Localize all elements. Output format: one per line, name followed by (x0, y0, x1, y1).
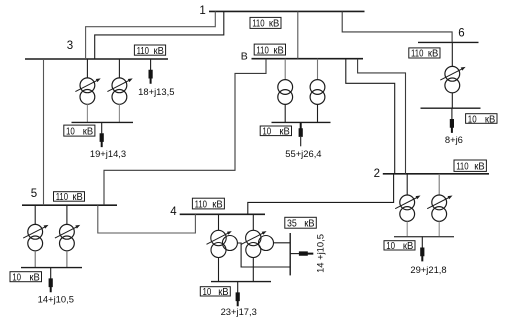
svg-text:4: 4 (170, 206, 177, 218)
svg-text:кВ: кВ (29, 273, 40, 284)
transformer T5a (23, 205, 48, 267)
transformer T4a (three-winding) (207, 214, 290, 281)
bus 5 (22, 204, 117, 206)
load 8+j6 (445, 108, 463, 145)
10kV bus of substation 5 (21, 267, 82, 269)
bus 2 (383, 173, 489, 175)
svg-text:110: 110 (256, 45, 269, 56)
transformer T3a (75, 59, 100, 122)
bus 3 (25, 58, 168, 60)
bus B (252, 58, 364, 60)
voltage box 10kV sub6 (466, 114, 497, 126)
svg-text:23+j17,3: 23+j17,3 (221, 306, 257, 317)
svg-text:кВ: кВ (403, 241, 414, 252)
voltage box 10kV subB (260, 126, 291, 138)
wire bus3 to bus5 (43, 59, 45, 205)
bus 6 (418, 41, 479, 43)
10kV bus of substation 6 (421, 107, 481, 109)
node 5 label (31, 188, 37, 200)
wire bus4 to bus2 (248, 174, 394, 215)
node 6 label (458, 28, 464, 40)
wire bus5 to bus4 (98, 205, 196, 233)
svg-text:кВ: кВ (83, 126, 94, 137)
svg-text:2: 2 (374, 168, 380, 180)
node 1 label (199, 5, 205, 17)
voltage box 35kV sub4 (285, 217, 317, 229)
svg-text:10: 10 (262, 127, 271, 138)
svg-text:10: 10 (386, 241, 395, 252)
svg-text:кВ: кВ (474, 162, 485, 173)
transformer T5b (55, 205, 80, 267)
10kV bus of substation 3 (72, 121, 134, 123)
load 18+j13,5 (138, 59, 174, 97)
wire bus1 to bus3 circuit 1 (86, 11, 216, 59)
svg-text:110: 110 (411, 49, 424, 60)
bus 1 (209, 10, 365, 12)
svg-text:10: 10 (66, 126, 75, 137)
svg-text:3: 3 (67, 40, 73, 52)
svg-text:кВ: кВ (154, 46, 165, 57)
svg-text:19+j14,3: 19+j14,3 (90, 148, 126, 159)
svg-text:кВ: кВ (273, 45, 284, 56)
svg-text:кВ: кВ (428, 49, 439, 60)
svg-text:29+j21,8: 29+j21,8 (410, 264, 446, 275)
svg-text:кВ: кВ (485, 114, 496, 125)
svg-text:кВ: кВ (279, 127, 290, 138)
10kV bus of substation B (272, 121, 331, 123)
svg-text:14+j10,5: 14+j10,5 (38, 293, 74, 304)
transformer TBa (278, 59, 293, 123)
load 14+j10,5 sub4 35kV side (290, 234, 325, 273)
transformer T2b (427, 174, 452, 237)
wire bus1 to bus6 (342, 11, 452, 42)
svg-text:110: 110 (137, 46, 150, 57)
svg-text:5: 5 (31, 188, 37, 200)
svg-text:кВ: кВ (218, 287, 229, 298)
svg-text:В: В (241, 51, 248, 63)
35kV bus of substation 4 (289, 233, 291, 275)
svg-text:110: 110 (56, 192, 69, 203)
load 19+j14,3 (90, 122, 126, 159)
svg-text:кВ: кВ (72, 192, 83, 203)
wire busB to bus5 (104, 59, 266, 206)
10kV bus of substation 4 (211, 281, 271, 283)
voltage box 110kV busB (254, 44, 285, 56)
svg-text:14 +j10,5: 14 +j10,5 (314, 234, 325, 273)
voltage box 10kV sub3 (64, 125, 95, 137)
transformer T2a (395, 174, 420, 237)
transformer T3b (107, 59, 132, 122)
node 4 label (170, 206, 177, 218)
svg-text:110: 110 (252, 19, 265, 30)
voltage box 110kV bus5 (54, 192, 85, 204)
svg-text:110: 110 (195, 199, 208, 210)
svg-text:кВ: кВ (212, 199, 223, 210)
svg-text:18+j13,5: 18+j13,5 (138, 86, 174, 97)
transformer T6 (440, 42, 465, 108)
load 23+j17,3 (221, 282, 257, 317)
transformer T4b (three-winding) (241, 214, 289, 281)
load 55+j26,4 (285, 123, 321, 159)
svg-text:110: 110 (456, 162, 469, 173)
node B label (241, 51, 248, 63)
svg-text:10: 10 (468, 114, 477, 125)
svg-text:6: 6 (458, 28, 464, 40)
transformer TBb (310, 59, 325, 123)
node 2 label (374, 168, 380, 180)
bus 4 (180, 213, 265, 215)
voltage box 10kV sub5 (10, 272, 42, 284)
svg-text:10: 10 (203, 287, 212, 298)
voltage box 110kV bus6 (409, 48, 440, 60)
voltage box 110kV bus2 (454, 160, 486, 173)
svg-text:кВ: кВ (269, 19, 280, 30)
voltage box 110kV bus4 (192, 198, 224, 210)
voltage box 110kV bus1 (250, 17, 281, 29)
svg-text:10: 10 (12, 273, 21, 284)
svg-text:кВ: кВ (304, 219, 315, 230)
svg-text:35: 35 (287, 219, 297, 230)
10kV bus of substation 2 (394, 236, 454, 238)
node 3 label (67, 40, 73, 52)
load 14+j10,5 sub5 (38, 268, 74, 305)
voltage box 10kV sub2 (384, 241, 415, 253)
wire bus1 to bus3 circuit 2 (95, 11, 224, 59)
voltage box 10kV sub4 (200, 287, 230, 298)
load 29+j21,8 (410, 237, 446, 275)
svg-text:1: 1 (199, 5, 205, 17)
wire bus1 to busB (297, 11, 299, 58)
voltage box 110kV bus3 (134, 45, 165, 57)
wire busB to bus2 circuit 1 (346, 59, 395, 174)
svg-text:55+j26,4: 55+j26,4 (285, 148, 321, 159)
svg-text:8+j6: 8+j6 (445, 134, 463, 145)
wire busB to bus2 circuit 2 (358, 59, 406, 174)
